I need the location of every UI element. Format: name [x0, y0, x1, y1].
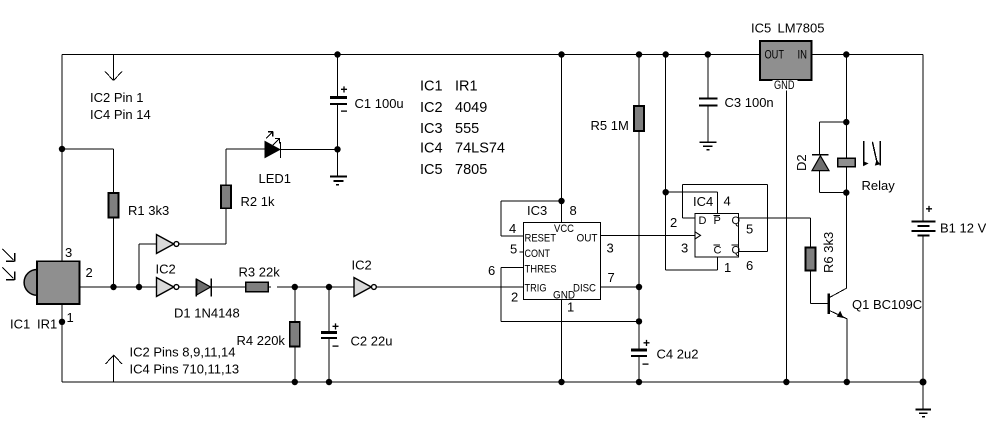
svg-text:2: 2 [670, 215, 677, 230]
svg-text:3: 3 [65, 245, 72, 260]
voltage regulator IC5 7805 box [760, 41, 812, 80]
wire 555 VCC from top rail [561, 55, 563, 223]
node junction preset branch [663, 189, 669, 195]
svg-text:IC2: IC2 [156, 262, 176, 277]
resistor R4 [290, 287, 300, 382]
arrow up from bottom rail [106, 355, 123, 382]
wire R6 to Q1 base [811, 271, 829, 304]
svg-text:IC3: IC3 [527, 203, 547, 218]
svg-text:LED1: LED1 [259, 171, 292, 186]
wire top rail right of IC5 [812, 54, 924, 56]
wire left rail upper [61, 55, 63, 263]
wire right rail upper [922, 55, 924, 222]
LED1 [265, 142, 338, 159]
svg-text:7805: 7805 [455, 162, 487, 178]
svg-text:1: 1 [567, 300, 574, 315]
node junction emitter bottom rail [844, 379, 850, 385]
svg-text:IC2 Pins 8,9,11,14: IC2 Pins 8,9,11,14 [130, 345, 236, 360]
node junction right rail bottom [920, 379, 927, 386]
IC4 clock triangle [695, 232, 701, 239]
svg-text:8: 8 [570, 203, 577, 218]
capacitor C1 [330, 55, 348, 150]
svg-text:LM7805: LM7805 [778, 21, 825, 36]
node junction LED / C1 [334, 146, 340, 152]
node junction relay top / D2 [843, 119, 849, 125]
capacitor C3 [699, 55, 718, 142]
node junction C2 bottom [326, 379, 332, 385]
svg-text:4: 4 [509, 221, 516, 236]
svg-text:5: 5 [510, 242, 517, 257]
svg-text:−: − [642, 357, 649, 371]
node junction C4 bottom rail [636, 379, 642, 385]
svg-text:Q: Q [732, 245, 741, 257]
svg-text:P: P [714, 215, 721, 227]
svg-text:−: − [332, 339, 339, 353]
svg-text:+: + [341, 83, 348, 97]
wire branch up to first inverter [139, 244, 157, 287]
svg-text:−: − [341, 104, 348, 118]
svg-text:6: 6 [746, 258, 753, 273]
wire IC4 Q to R6 [739, 218, 811, 247]
resistor R1 [109, 193, 119, 218]
IC4 pin name Q bar [732, 245, 741, 257]
resistor R5 [634, 55, 644, 288]
svg-text:TRIG: TRIG [525, 283, 547, 295]
relay contact right [879, 141, 881, 166]
svg-text:IC3: IC3 [420, 121, 443, 137]
svg-text:4: 4 [724, 194, 731, 209]
capacitor C4 [631, 336, 650, 382]
node junction left rail to R1 [59, 146, 65, 152]
svg-text:3: 3 [607, 241, 614, 256]
node junction VCC / pin4 loop [558, 198, 564, 204]
wire left rail lower [61, 303, 63, 382]
svg-text:C3 100n: C3 100n [725, 95, 774, 110]
LED1 emission arrows [266, 132, 280, 146]
svg-text:GND: GND [553, 290, 575, 302]
wire DISC node down [638, 287, 640, 350]
svg-text:DISC: DISC [573, 283, 596, 295]
IC4 pin name C bar [714, 245, 722, 257]
svg-text:Q1 BC109C: Q1 BC109C [852, 297, 922, 312]
svg-text:IR1: IR1 [455, 79, 478, 95]
wire pin2 row to inverter input [80, 286, 157, 288]
svg-text:R3 22k: R3 22k [239, 265, 281, 280]
battery B1 [912, 202, 936, 235]
svg-text:IN: IN [798, 48, 808, 62]
svg-text:IC4 Pins 710,11,13: IC4 Pins 710,11,13 [130, 362, 240, 377]
ground below C3 [700, 142, 717, 150]
wire IC4 clear pin 1 [666, 257, 718, 270]
relay coil [838, 158, 856, 166]
svg-text:D: D [699, 215, 707, 227]
IC4 pin name P bar [714, 215, 721, 227]
node junction R1 bottom [110, 284, 116, 290]
inverter IC2 (second) [157, 278, 197, 297]
svg-text:74LS74: 74LS74 [455, 141, 505, 157]
svg-text:IC5: IC5 [751, 21, 771, 36]
svg-text:5: 5 [746, 222, 753, 237]
svg-text:D1 1N4148: D1 1N4148 [174, 306, 240, 321]
svg-text:C4 2u2: C4 2u2 [657, 347, 699, 362]
op-amp timer IC3 555 box [523, 222, 600, 299]
svg-text:R1 3k3: R1 3k3 [128, 203, 169, 218]
capacitor C2 [321, 287, 339, 382]
IR input arrow 1 [3, 249, 15, 261]
svg-text:R2 1k: R2 1k [241, 194, 275, 209]
wire 555 DISC to node [601, 286, 639, 288]
wire 555 GND to bottom rail [561, 300, 563, 383]
svg-text:CONT: CONT [525, 248, 551, 260]
svg-text:Q: Q [732, 215, 741, 227]
svg-text:Relay: Relay [862, 178, 896, 193]
node junction R4 top [292, 284, 298, 290]
node junction R4 bottom [292, 379, 298, 385]
arrow down to IC2/IC4 supply pins [105, 55, 122, 81]
svg-text:7: 7 [608, 270, 615, 285]
svg-text:1: 1 [67, 310, 74, 325]
relay contact blade diagonal [872, 142, 877, 163]
7805 pin name GND with white backing [773, 78, 798, 92]
svg-text:B1 12 V: B1 12 V [940, 221, 986, 236]
node junction relay top rail [843, 51, 849, 57]
svg-text:IC2: IC2 [420, 100, 443, 116]
node junction C1 top rail [334, 51, 340, 57]
svg-text:IR1: IR1 [37, 317, 57, 332]
svg-text:C: C [714, 245, 722, 257]
inverter IC2 (third) [354, 278, 523, 297]
svg-text:+: + [926, 202, 933, 216]
svg-text:3: 3 [681, 241, 688, 256]
svg-text:IC1: IC1 [420, 79, 443, 95]
diode D2 [812, 155, 829, 171]
node junction THRES line [636, 318, 642, 324]
svg-text:IC5: IC5 [420, 162, 443, 178]
node junction 555 VCC top rail [558, 51, 564, 57]
node junction R5 top rail [636, 51, 642, 57]
svg-text:C1 100u: C1 100u [355, 96, 404, 111]
node junction DISC [636, 284, 642, 290]
node junction C3 top rail [705, 51, 711, 57]
node junction C2 top [326, 284, 332, 290]
ground bottom right [916, 410, 932, 417]
wire relay coil from top rail [845, 55, 847, 289]
wire 555 pin4 loop [501, 201, 562, 236]
svg-text:IC2: IC2 [352, 258, 372, 273]
ground below C1 [330, 177, 347, 185]
node junction relay bottom / D2 [843, 189, 849, 195]
inverter IC2 (first) [157, 235, 179, 254]
svg-text:VCC: VCC [554, 223, 574, 235]
svg-text:THRES: THRES [525, 264, 557, 276]
svg-text:IC4: IC4 [420, 141, 443, 157]
svg-text:2: 2 [86, 265, 93, 280]
svg-text:OUT: OUT [765, 48, 785, 62]
transistor Q1 BC109C [829, 288, 847, 382]
wire IC4 preset/clear rail [665, 55, 667, 270]
node junction IC4 supply top rail [663, 51, 669, 57]
svg-text:6: 6 [488, 263, 495, 278]
wire R3 to inverter3 with gap [268, 286, 354, 288]
svg-text:C2 22u: C2 22u [351, 334, 393, 349]
wire bottom rail [62, 381, 923, 383]
wire IC4 preset pin 4 [666, 192, 718, 214]
svg-text:R6 3k3: R6 3k3 [821, 232, 836, 273]
node junction pin1 [59, 319, 65, 325]
relay contact blade foot [875, 160, 880, 166]
resistor R3 [246, 282, 269, 291]
diode D2 branch wires [819, 122, 846, 193]
resistor R2 [221, 185, 231, 208]
svg-text:IC2 Pin 1: IC2 Pin 1 [90, 90, 143, 105]
wire top rail left of IC5 [62, 54, 760, 56]
wire 555 OUT to IC4 clock [601, 235, 695, 237]
relay contact left foot [863, 161, 868, 166]
svg-text:RESET: RESET [525, 233, 557, 245]
wire inverter1 output to R2 [179, 149, 265, 244]
wire 7805 GND to bottom rail [785, 91, 787, 383]
svg-text:GND: GND [774, 78, 795, 92]
node junction 7805 GND bottom rail [783, 379, 789, 385]
resistor R6 [806, 248, 816, 271]
flip-flop IC4 box [695, 214, 739, 257]
wire 555 THRES loop [501, 267, 639, 321]
node junction inverter branch [136, 284, 142, 290]
svg-text:555: 555 [455, 121, 479, 137]
diode D1 [196, 279, 245, 297]
svg-text:R4 220k: R4 220k [237, 333, 286, 348]
wire C1 to ground [337, 149, 339, 176]
svg-text:OUT: OUT [577, 233, 598, 245]
svg-text:R5 1M: R5 1M [591, 118, 629, 133]
relay contact left [863, 141, 865, 166]
IR input arrow 2 [3, 268, 15, 280]
svg-text:IC4: IC4 [693, 194, 713, 209]
wire IC4 D feedback loop [683, 184, 768, 251]
svg-text:1: 1 [724, 260, 731, 275]
svg-text:4049: 4049 [455, 100, 487, 116]
svg-text:+: + [643, 336, 650, 350]
IR receiver IC1 dome [24, 270, 37, 296]
svg-text:D2: D2 [794, 154, 809, 171]
svg-text:IC1: IC1 [10, 317, 30, 332]
IR receiver IC1 body [37, 261, 80, 304]
wire right rail lower [922, 236, 924, 410]
svg-text:2: 2 [511, 290, 518, 305]
wire left rail to R1 top [62, 149, 114, 287]
wire 555 CONT stub [519, 251, 523, 253]
node junction 555 GND bottom rail [558, 379, 564, 385]
svg-text:IC4 Pin 14: IC4 Pin 14 [90, 107, 151, 122]
legend IC list [420, 79, 505, 179]
